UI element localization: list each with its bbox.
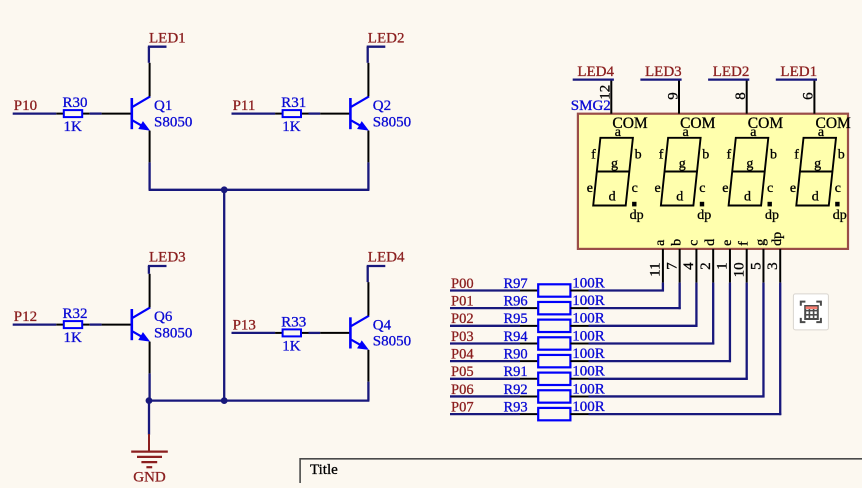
svg-text:1K: 1K [282, 119, 301, 135]
svg-text:d: d [703, 239, 718, 246]
svg-text:dp: dp [697, 208, 711, 223]
svg-text:Q6: Q6 [154, 309, 173, 325]
svg-text:f: f [794, 147, 799, 162]
svg-text:a: a [615, 125, 622, 140]
svg-text:e: e [722, 181, 728, 196]
svg-text:e: e [655, 181, 661, 196]
svg-text:d: d [812, 189, 819, 204]
svg-text:d: d [676, 189, 683, 204]
svg-text:f: f [727, 147, 732, 162]
svg-text:LED2: LED2 [713, 64, 750, 80]
svg-text:d: d [609, 189, 616, 204]
svg-text:10: 10 [732, 262, 748, 277]
svg-text:d: d [744, 189, 751, 204]
svg-text:P13: P13 [233, 318, 256, 334]
svg-text:R32: R32 [63, 306, 88, 322]
svg-text:4: 4 [681, 262, 697, 270]
svg-text:Q2: Q2 [373, 98, 391, 114]
svg-text:12: 12 [598, 85, 614, 100]
svg-text:3: 3 [765, 262, 781, 270]
svg-text:e: e [790, 181, 796, 196]
svg-text:e: e [587, 181, 593, 196]
svg-text:S8050: S8050 [154, 325, 192, 341]
svg-text:11: 11 [648, 262, 664, 276]
svg-text:a: a [653, 239, 668, 246]
svg-text:dp: dp [765, 208, 779, 223]
svg-text:Q1: Q1 [154, 98, 172, 114]
svg-text:100R: 100R [572, 293, 605, 309]
svg-text:b: b [702, 147, 709, 162]
svg-text:f: f [659, 147, 664, 162]
svg-text:g: g [611, 156, 618, 171]
svg-text:b: b [838, 147, 845, 162]
svg-text:R31: R31 [281, 95, 306, 111]
svg-text:dp: dp [770, 232, 785, 246]
svg-text:P11: P11 [233, 98, 256, 114]
svg-text:1K: 1K [64, 119, 83, 135]
svg-text:S8050: S8050 [373, 334, 411, 350]
svg-text:b: b [635, 147, 642, 162]
svg-text:a: a [750, 125, 757, 140]
svg-text:Q4: Q4 [373, 318, 392, 334]
svg-text:LED1: LED1 [780, 64, 817, 80]
svg-text:100R: 100R [572, 328, 605, 344]
svg-text:6: 6 [801, 92, 817, 100]
svg-text:5: 5 [748, 262, 764, 270]
svg-text:100R: 100R [572, 399, 605, 415]
svg-text:g: g [814, 156, 821, 171]
svg-text:c: c [835, 181, 841, 196]
svg-text:1: 1 [715, 262, 731, 270]
svg-text:1K: 1K [64, 330, 83, 346]
svg-text:dp: dp [833, 208, 847, 223]
svg-text:c: c [632, 181, 638, 196]
svg-text:100R: 100R [572, 381, 605, 397]
svg-text:g: g [753, 239, 768, 246]
svg-text:P10: P10 [14, 98, 37, 114]
svg-text:dp: dp [630, 208, 644, 223]
svg-text:LED3: LED3 [645, 64, 682, 80]
svg-text:S8050: S8050 [373, 114, 411, 130]
svg-text:Title: Title [310, 462, 338, 478]
svg-text:b: b [670, 239, 685, 246]
svg-text:100R: 100R [572, 275, 605, 291]
svg-text:R30: R30 [63, 95, 88, 111]
svg-text:f: f [737, 241, 752, 246]
svg-text:2: 2 [698, 262, 714, 270]
svg-text:LED1: LED1 [149, 30, 186, 46]
svg-text:a: a [683, 125, 690, 140]
svg-text:g: g [679, 156, 686, 171]
svg-text:c: c [686, 240, 701, 246]
svg-text:100R: 100R [572, 346, 605, 362]
svg-text:b: b [770, 147, 777, 162]
svg-text:100R: 100R [572, 364, 605, 380]
svg-text:LED3: LED3 [149, 250, 186, 266]
svg-text:R33: R33 [281, 314, 306, 330]
svg-text:7: 7 [664, 262, 680, 270]
svg-text:8: 8 [733, 92, 749, 100]
svg-text:LED4: LED4 [577, 64, 614, 80]
svg-text:100R: 100R [572, 311, 605, 327]
svg-text:GND: GND [133, 469, 166, 483]
svg-text:g: g [746, 156, 753, 171]
svg-text:e: e [720, 240, 735, 246]
svg-text:LED4: LED4 [368, 250, 405, 266]
svg-text:1K: 1K [282, 339, 301, 355]
svg-text:c: c [767, 181, 773, 196]
svg-text:f: f [591, 147, 596, 162]
svg-text:a: a [818, 125, 825, 140]
svg-text:S8050: S8050 [154, 114, 192, 130]
svg-text:LED2: LED2 [368, 30, 405, 46]
svg-text:c: c [699, 181, 705, 196]
svg-text:9: 9 [665, 92, 681, 100]
svg-text:P12: P12 [14, 309, 37, 325]
